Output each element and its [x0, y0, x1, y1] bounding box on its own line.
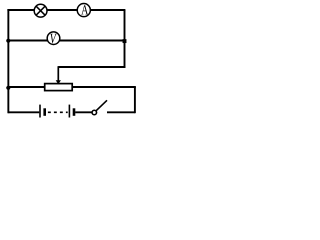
- switch pivot circle: [92, 110, 97, 115]
- node junction dot upper left: [6, 39, 10, 43]
- wire right vertical upper: [124, 10, 126, 68]
- wire left vertical: [7, 9, 9, 113]
- battery cell 2 short thick plate: [73, 108, 76, 116]
- wire voltmeter branch: [8, 40, 124, 42]
- wire switch to bottom right: [107, 111, 135, 113]
- node junction dot lower left: [6, 86, 10, 90]
- voltmeter V: [47, 32, 60, 45]
- wire rheostat right: [72, 86, 136, 88]
- wire battery to switch: [75, 111, 92, 113]
- battery cell 2 long plate: [68, 105, 70, 118]
- wire top horizontal: [7, 9, 125, 11]
- wire bottom left to battery: [8, 111, 39, 113]
- lamp (circle with X): [34, 4, 47, 17]
- wire rheostat left: [8, 86, 44, 88]
- battery dashed middle: [48, 111, 68, 113]
- node junction square right: [123, 39, 127, 43]
- wire slider horizontal: [58, 66, 125, 68]
- rheostat slider stem: [57, 66, 59, 81]
- ammeter A: [77, 4, 90, 17]
- battery cell 1 long plate: [39, 105, 41, 118]
- wire right vertical lower: [134, 87, 136, 113]
- rheostat box: [45, 84, 72, 91]
- rheostat slider arrowhead: [56, 80, 61, 84]
- battery cell 1 short thick plate: [43, 108, 46, 116]
- switch lever: [96, 100, 107, 111]
